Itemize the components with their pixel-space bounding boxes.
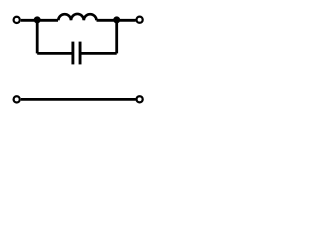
wire capacitor right lead bbox=[80, 52, 117, 55]
wire top-right segment bbox=[97, 19, 136, 22]
wire top-left segment bbox=[21, 19, 58, 22]
terminal bottom-left bbox=[14, 96, 20, 102]
capacitor C1 left plate bbox=[71, 42, 74, 65]
node junction dot left bbox=[34, 16, 41, 23]
wire left vertical drop bbox=[36, 19, 39, 53]
wire right vertical drop bbox=[115, 19, 118, 53]
terminal top-left bbox=[14, 17, 20, 23]
wire bottom rail bbox=[21, 98, 136, 101]
terminal top-right bbox=[137, 17, 143, 23]
inductor L1 bbox=[58, 14, 96, 20]
node junction dot right bbox=[113, 16, 120, 23]
wire capacitor left lead bbox=[37, 52, 73, 55]
capacitor C1 right plate bbox=[79, 42, 82, 65]
terminal bottom-right bbox=[137, 96, 143, 102]
